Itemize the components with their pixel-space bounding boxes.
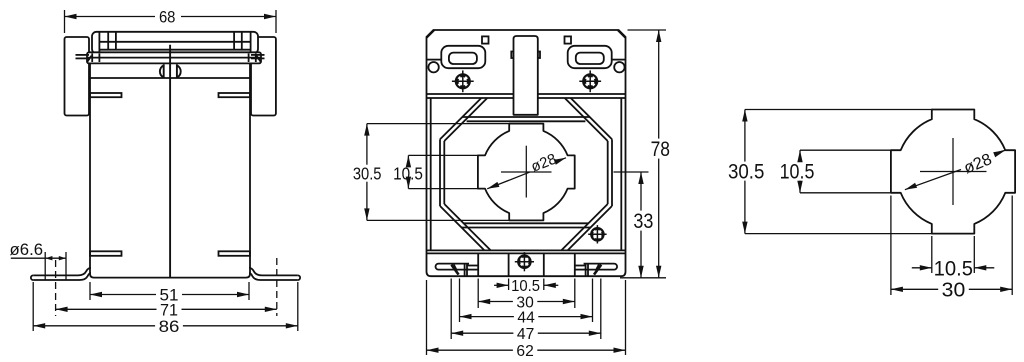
dimension 10.5 bottom front view	[494, 278, 558, 295]
side view cover band	[76, 52, 265, 63]
dimension 10.5 side right view	[780, 150, 891, 193]
dimension diameter 28 right view	[905, 150, 1006, 190]
dimension 30 right view	[891, 196, 1012, 302]
dimension 86	[33, 282, 298, 336]
dimension 30.5 right view	[728, 110, 933, 234]
svg-text:33: 33	[633, 210, 653, 233]
dimension 10.5 left front view	[393, 155, 478, 188]
rail slot right	[574, 264, 617, 277]
rail area vertical walls	[477, 253, 479, 276]
core clover outline right view	[891, 110, 1015, 234]
foot hole centerline right	[276, 258, 278, 316]
svg-text:10.5: 10.5	[780, 161, 815, 184]
front view left slot	[441, 46, 485, 68]
side view latch bars	[90, 93, 122, 97]
dimension diameter 6.6	[10, 240, 66, 260]
left mounting foot	[31, 268, 91, 280]
dimension 30 front view	[478, 279, 575, 312]
side view right terminal tab	[251, 37, 276, 116]
dimension 30.5 front view	[353, 124, 510, 221]
front view body outline	[427, 30, 626, 276]
right mounting foot	[249, 268, 300, 280]
dimension diameter 28 front view	[487, 150, 566, 188]
side view terminal cover cap	[92, 32, 258, 54]
side view case split line	[169, 45, 171, 278]
svg-text:10.5: 10.5	[511, 278, 540, 295]
screw terminal right	[583, 74, 597, 88]
svg-text:78: 78	[651, 138, 670, 161]
front view right slot	[568, 46, 612, 68]
dimension 71	[56, 300, 277, 319]
svg-text:30: 30	[942, 280, 966, 302]
front view top band lines	[427, 93, 626, 95]
side view left terminal tab	[65, 37, 90, 116]
center hole clover front view	[478, 124, 575, 221]
dimension 68 top	[65, 8, 277, 33]
screw terminal left	[456, 74, 470, 88]
window frame octagon inner	[444, 98, 607, 250]
front view left ear hole	[428, 62, 438, 72]
dimension 44	[460, 279, 593, 327]
dimension 51	[90, 282, 249, 305]
center crosshair right view	[952, 138, 954, 205]
front view small square left	[482, 36, 489, 43]
svg-text:10.5: 10.5	[393, 164, 423, 184]
svg-text:10.5: 10.5	[934, 257, 973, 280]
window frame octagon outer	[440, 98, 612, 250]
side view hinge knuckles	[160, 64, 164, 78]
front view inner wall lines	[430, 98, 432, 250]
front view central tab	[511, 36, 540, 115]
front view corner chamfer marks	[427, 30, 435, 38]
svg-text:47: 47	[517, 326, 534, 343]
svg-text:62: 62	[516, 343, 533, 360]
dimension 10.5 bottom right view	[912, 236, 995, 280]
dimension 47	[451, 279, 601, 344]
foot hole centerline left	[55, 260, 57, 316]
foot hole edge marks	[44, 252, 46, 280]
front view ear ledges	[427, 59, 441, 61]
svg-text:ø6.6: ø6.6	[10, 240, 44, 259]
front view small square right	[565, 36, 572, 43]
svg-text:68: 68	[159, 8, 176, 27]
svg-text:30.5: 30.5	[353, 164, 382, 184]
dimension 62	[427, 280, 626, 360]
dimension 78	[620, 30, 670, 278]
svg-text:86: 86	[159, 317, 180, 336]
side view main body	[90, 63, 250, 277]
rail slot left	[436, 264, 479, 277]
center crosshair front view	[525, 146, 527, 198]
dimension 33	[614, 172, 654, 278]
screw rail center	[518, 256, 530, 268]
front view bottom band lines	[427, 249, 626, 251]
svg-text:44: 44	[517, 309, 534, 326]
front view right ear hole	[614, 62, 624, 72]
svg-text:30.5: 30.5	[728, 161, 764, 184]
screw window corner	[591, 228, 603, 240]
